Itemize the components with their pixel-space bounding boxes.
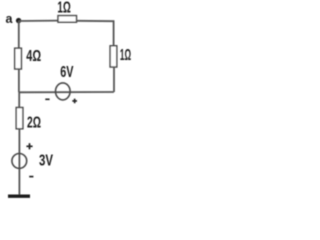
wire middle branch (6V branch) — [19, 91, 114, 93]
resistor R-left 4ohm body — [15, 48, 22, 69]
wire top right (R-top to corner) — [77, 20, 115, 22]
wire left branch (4ohm to junction) — [18, 69, 20, 92]
svg-text:a: a — [6, 12, 14, 26]
svg-text:3V: 3V — [39, 153, 53, 170]
wire left branch (a to R 4ohm) — [18, 21, 20, 48]
wire (2ohm through 3V source to ground) — [18, 129, 20, 195]
ground bar — [8, 194, 30, 197]
node a junction dot — [16, 18, 21, 23]
source V 3V circle — [12, 154, 27, 169]
3V plus sign — [26, 143, 32, 149]
3V minus sign — [29, 176, 33, 178]
wire right branch lower — [113, 67, 115, 92]
svg-text:1Ω: 1Ω — [120, 47, 131, 64]
svg-text:4Ω: 4Ω — [26, 48, 41, 65]
resistor R-right 1ohm body — [110, 46, 117, 67]
wire top left (node a to R-top) — [19, 20, 58, 22]
svg-text:6V: 6V — [60, 64, 73, 81]
svg-text:1Ω: 1Ω — [57, 0, 71, 17]
wire left branch (junction to 2ohm) — [18, 92, 20, 107]
source V 6V circle — [56, 83, 71, 100]
6V minus sign — [45, 98, 49, 100]
resistor R 2ohm body — [16, 108, 23, 129]
wire right branch upper — [113, 20, 115, 45]
svg-text:2Ω: 2Ω — [27, 115, 41, 132]
6V plus sign — [72, 99, 77, 104]
resistor R-top 1ohm body — [58, 16, 77, 23]
